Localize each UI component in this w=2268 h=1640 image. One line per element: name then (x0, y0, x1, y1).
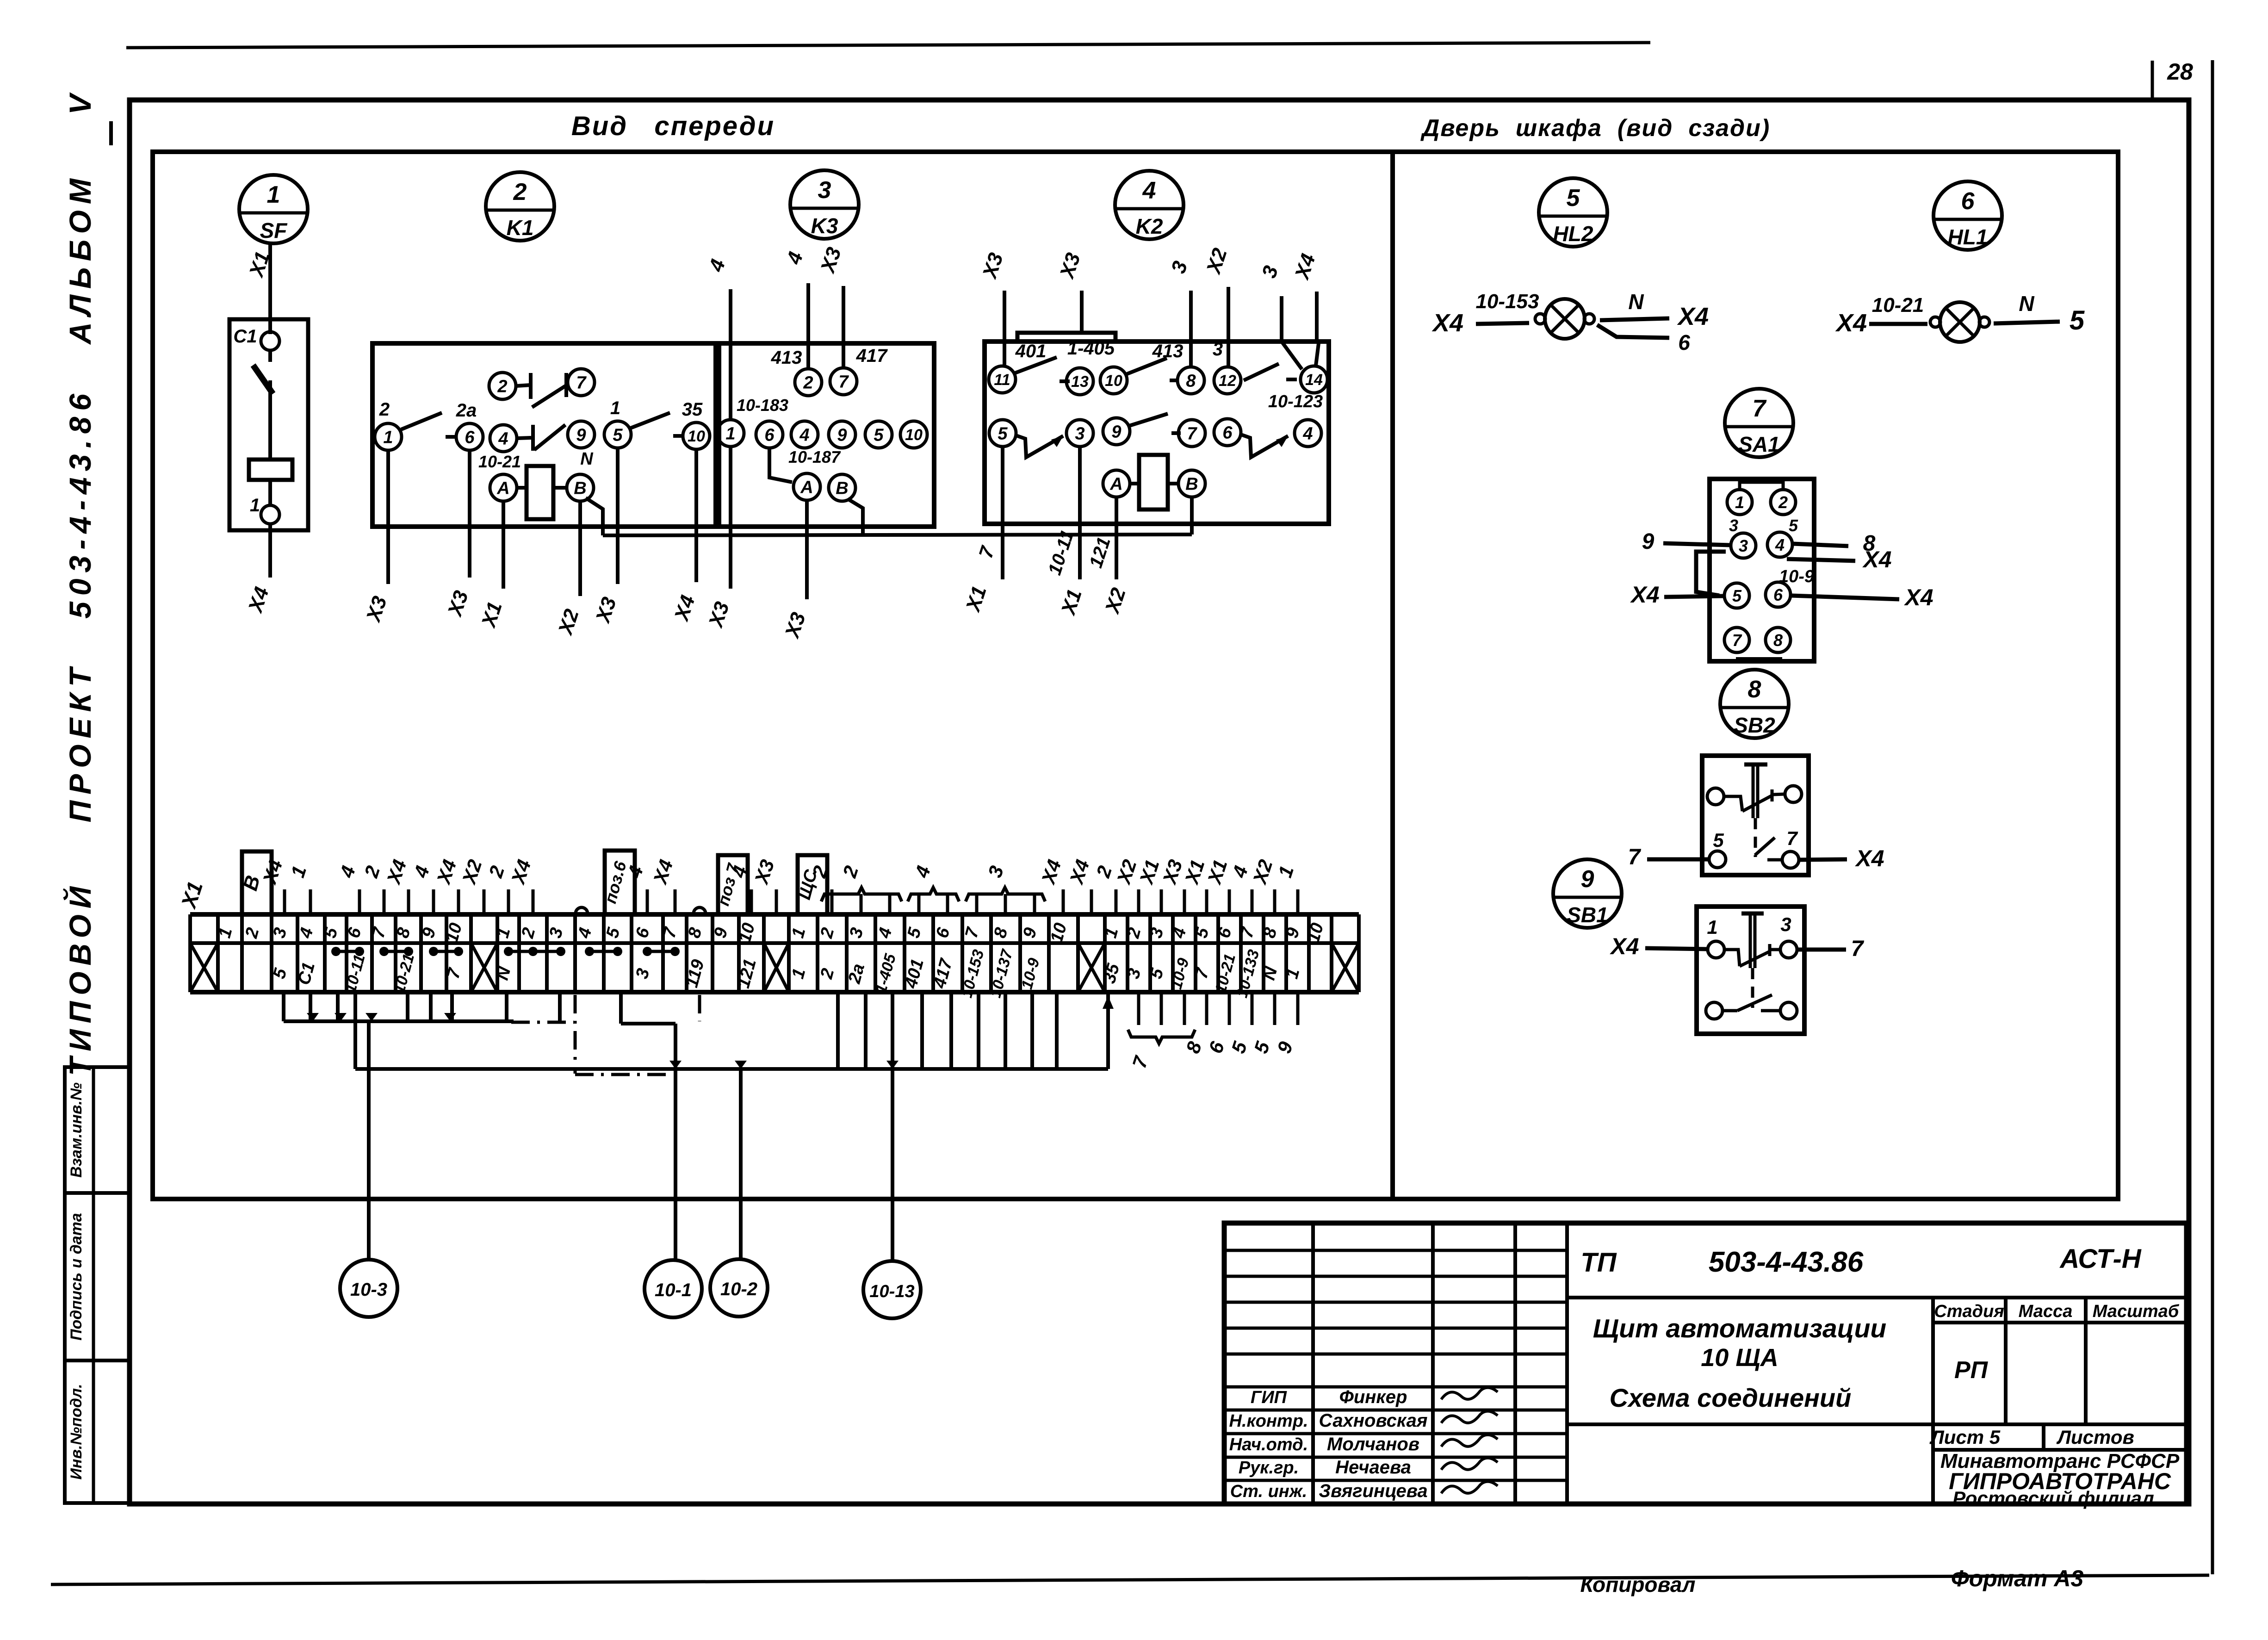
svg-text:6: 6 (1961, 188, 1975, 215)
svg-text:4: 4 (1302, 424, 1313, 444)
stub wire group2 terminal 3 (558, 992, 562, 1021)
pin K2.4 (1295, 420, 1321, 447)
pin K1.10 (683, 422, 710, 449)
wire K1.5 to X3 (616, 448, 620, 584)
svg-text:HL1: HL1 (1948, 225, 1988, 249)
svg-text:Дверь шкафа (вид сзади): Дверь шкафа (вид сзади) (1420, 115, 1771, 142)
incoming wire X4 to terminal (1062, 889, 1065, 914)
incoming wire 4 to terminal (432, 889, 435, 914)
contact K1 2-7 (516, 385, 531, 386)
contact SB1 bottom (1723, 1009, 1737, 1013)
pin SA1.7 (1724, 627, 1749, 652)
wire group3 terminal 4 to circle 10-13 (891, 992, 894, 1262)
incoming wire 4 to terminal (750, 889, 753, 914)
contact K1 1-6 (401, 413, 442, 429)
svg-text:K3: K3 (811, 214, 838, 238)
svg-text:Схема соединений: Схема соединений (1610, 1383, 1852, 1412)
junction on bus L1 (335, 1013, 347, 1021)
switch SA1 body (1710, 479, 1814, 661)
pin SA1.5 (1724, 583, 1749, 608)
crossed spare cell (764, 943, 789, 992)
outer drawing frame (130, 100, 2189, 1504)
svg-text:10: 10 (905, 426, 923, 444)
pin K2.14 (1301, 366, 1327, 393)
svg-text:13: 13 (1071, 373, 1089, 391)
wire 9 to SA1.3 (1663, 543, 1730, 545)
pin SB1.3 (1780, 941, 1797, 958)
title block frame (1224, 1223, 2187, 1504)
pin K1.A (490, 474, 517, 501)
svg-text:N: N (2019, 292, 2034, 316)
wire HL2 branch net 6 (1597, 325, 1669, 338)
junction on bus L1 (307, 1013, 319, 1021)
wire K1.B jog to N bus (586, 498, 603, 535)
incoming wire X3 to terminal (775, 889, 778, 914)
pin K3.1 (717, 420, 744, 447)
pin K2.3 (1066, 420, 1093, 447)
svg-text:10: 10 (1105, 372, 1122, 390)
svg-text:B: B (1185, 475, 1198, 494)
designator circle 5 HL2 (1539, 178, 1607, 247)
svg-text:7: 7 (838, 373, 849, 392)
wire bus L2 to circle 10-2 (739, 1069, 743, 1260)
wire K3.7 up to X3 (842, 286, 845, 368)
svg-text:7: 7 (1628, 845, 1642, 870)
pin K1.4 (490, 425, 517, 452)
svg-text:1: 1 (725, 424, 735, 444)
wire SF to X4 (268, 524, 272, 578)
terminal 1 of SF (268, 480, 272, 505)
svg-text:6: 6 (1773, 585, 1783, 604)
outgoing wire 8 (1205, 992, 1208, 1025)
incoming wire 4 to terminal (358, 889, 361, 914)
wire K1.A to X1 (502, 501, 505, 589)
svg-text:413: 413 (1152, 341, 1184, 361)
svg-text:Лист 5: Лист 5 (1929, 1426, 2001, 1448)
jumper link on terminals (589, 950, 618, 953)
contact K2 6-4 (1241, 435, 1288, 457)
pin K3.7 (830, 368, 857, 395)
wire HL1 to 5, net N (1994, 322, 2060, 323)
contact K2 11-13 (1015, 357, 1057, 373)
jumper link on terminals (336, 950, 359, 953)
pin K3.6 (756, 421, 783, 448)
stub wire group3 to bus L2 (920, 992, 924, 1069)
pin SA1.6 (1766, 582, 1791, 607)
svg-text:7: 7 (1732, 631, 1742, 650)
wire K3.6 to K3.A (769, 448, 792, 482)
pin SB1 bottom-left (1706, 1002, 1723, 1019)
outgoing wire 5 (1251, 992, 1254, 1025)
svg-text:2: 2 (513, 179, 527, 205)
incoming wire X4 to terminal (457, 889, 460, 914)
svg-text:Масштаб: Масштаб (2093, 1302, 2180, 1321)
svg-text:Н.контр.: Н.контр. (1229, 1411, 1308, 1431)
contact SB2 top (1724, 796, 1742, 811)
svg-text:503-4-43.86: 503-4-43.86 (1709, 1246, 1864, 1278)
wire SB2.7 to X4 (1799, 859, 1847, 860)
stub wire group3 to bus L2 (864, 992, 868, 1069)
group brace net 3 (966, 888, 1045, 901)
pin K1.5 (604, 421, 631, 448)
svg-text:SF: SF (260, 218, 288, 242)
door panel border (1393, 152, 2118, 1199)
pin SA1.2 (1771, 490, 1796, 515)
wire to circle 10-1 (674, 1024, 677, 1261)
svg-text:9: 9 (1581, 866, 1594, 893)
svg-text:8: 8 (1748, 676, 1761, 703)
crossed spare cell (1078, 943, 1105, 992)
contact SB2 bottom (1755, 838, 1775, 855)
incoming wire 1 to terminal (1296, 889, 1300, 914)
svg-text:1: 1 (610, 398, 620, 418)
pin SA1.3 (1731, 533, 1756, 558)
wire K2.12 up to X2 (1227, 287, 1230, 367)
contact K2 9-7 (1129, 414, 1168, 426)
incoming wire X2 to terminal (1137, 889, 1140, 914)
incoming wire X4 to terminal (674, 889, 677, 914)
svg-text:10-153: 10-153 (1475, 290, 1539, 313)
svg-text:7: 7 (1851, 937, 1865, 961)
incoming wire X2 to terminal (1273, 889, 1277, 914)
svg-text:3: 3 (1213, 339, 1223, 360)
pin SB2.7 (1782, 851, 1799, 868)
wire SB1.3 to 7 (1797, 948, 1846, 952)
svg-text:Нач.отд.: Нач.отд. (1229, 1435, 1308, 1454)
pin K2.9 (1103, 418, 1130, 445)
pin K2.5 (989, 420, 1016, 447)
contact SB1 top (1724, 950, 1740, 966)
lamp HL2 (1545, 299, 1585, 339)
svg-text:7: 7 (1187, 424, 1197, 444)
button SB1 body (1697, 907, 1804, 1034)
riser L2 left (353, 992, 357, 1069)
wire K3.B jog to N bus (848, 499, 863, 535)
pin K1.2 (489, 373, 516, 399)
svg-text:2: 2 (497, 377, 507, 397)
wire K1.10 to X4 (694, 449, 698, 582)
wire K3.A to X3 (805, 500, 809, 599)
incoming wire 1 to terminal (309, 889, 312, 914)
outgoing wire group4 (1160, 992, 1163, 1025)
svg-text:5: 5 (1789, 516, 1798, 535)
svg-text:7: 7 (1786, 827, 1798, 849)
stub wire to bus L1 (450, 992, 454, 1021)
pin K1.6 (456, 423, 483, 450)
collector bus L1 (284, 1019, 514, 1023)
svg-text:Ростовский филиал: Ростовский филиал (1952, 1487, 2154, 1509)
pin SA1.8 (1766, 627, 1791, 652)
svg-text:X4: X4 (1630, 582, 1659, 608)
incoming wire 2 to terminal (507, 889, 510, 914)
incoming wire X1 to terminal (1205, 889, 1208, 914)
link SA1 1-2 (1740, 482, 1783, 489)
svg-text:10 ЩА: 10 ЩА (1701, 1344, 1778, 1372)
pin K3.4 (791, 421, 818, 448)
svg-text:X4: X4 (1854, 845, 1884, 871)
front view panel border (153, 152, 1393, 1199)
svg-text:7: 7 (576, 373, 587, 393)
svg-text:B: B (836, 479, 848, 498)
wire K2.13 up to X3 (1080, 291, 1084, 333)
svg-text:5: 5 (2070, 305, 2085, 335)
outgoing wire group4 (1137, 992, 1140, 1025)
contact K1 5-10 (631, 413, 670, 428)
incoming wire X2 to terminal (483, 889, 486, 914)
wire X4 to HL1, net 10-21 (1869, 322, 1927, 326)
svg-text:N: N (1628, 290, 1644, 314)
svg-text:6: 6 (465, 428, 475, 447)
shield hook at terminal 4 (576, 907, 588, 913)
svg-text:2: 2 (803, 373, 813, 393)
page number 28 (2151, 61, 2154, 99)
svg-text:SB2: SB2 (1734, 713, 1775, 737)
group brace net 4 (908, 888, 959, 901)
svg-text:417: 417 (856, 346, 888, 366)
wire bus to circle 10-3 (367, 1021, 371, 1260)
pin K3.2 (795, 369, 822, 396)
marker box поз 7 (718, 855, 748, 914)
jumper link on terminals (384, 950, 409, 953)
cover bump on K2 top (1017, 333, 1115, 342)
button SB2 body (1702, 756, 1809, 875)
svg-text:413: 413 (771, 348, 802, 368)
svg-text:5: 5 (874, 426, 884, 445)
wire K2.8 up, net 3 (1189, 291, 1193, 367)
svg-text:X4: X4 (1862, 547, 1891, 572)
group brace net 7 below (1128, 1030, 1195, 1044)
plunger SB2 (1744, 763, 1767, 767)
pin K2.10 (1100, 367, 1127, 394)
contact K2 10-8 (1127, 358, 1167, 374)
designator circle 7 SA1 (1725, 389, 1793, 457)
pin K2.13 (1066, 368, 1093, 395)
incoming wire 4 to terminal (1251, 889, 1254, 914)
stub wire to bus L1 (505, 992, 508, 1021)
svg-text:ТИПОВОЙ ПРОЕКТ 503-4-43.8: ТИПОВОЙ ПРОЕКТ 503-4-43.86 АЛЬБОМ V (62, 88, 97, 1076)
outgoing wire 5 (1273, 992, 1277, 1025)
svg-text:10-2: 10-2 (720, 1279, 757, 1299)
svg-text:6: 6 (764, 426, 775, 445)
sheet top edge line (126, 43, 1650, 48)
breaker SF coil (249, 460, 292, 480)
incoming wire X4 to terminal (1090, 889, 1093, 914)
sheet bottom edge line (51, 1575, 2209, 1584)
incoming wire 2 to terminal (830, 889, 834, 914)
relay K3 body (719, 343, 934, 527)
cable circle 10-1 (644, 1260, 702, 1317)
designator circle 8 SB2 (1720, 670, 1789, 738)
junction on bus L2 (669, 1061, 682, 1069)
svg-text:X4: X4 (1609, 933, 1639, 959)
pin K1.B (567, 474, 594, 501)
pin SB2.5 (1709, 851, 1726, 868)
svg-text:1: 1 (1735, 493, 1744, 512)
svg-text:9: 9 (1111, 422, 1121, 442)
pin K1.7 (568, 369, 595, 396)
svg-text:Стадия: Стадия (1934, 1302, 2004, 1321)
outgoing wire 6 (1228, 992, 1231, 1025)
svg-text:SB1: SB1 (1567, 903, 1608, 927)
incoming wire 4 to terminal (646, 889, 649, 914)
svg-text:1-405: 1-405 (1067, 338, 1115, 359)
designator circle 6 HL1 (1933, 181, 2002, 250)
svg-text:3: 3 (1729, 516, 1738, 535)
crossed spare cell (471, 943, 497, 992)
pin SA1.4 (1767, 532, 1792, 557)
wire K1.B to X2 (578, 501, 582, 596)
jumper link on terminals (508, 950, 561, 953)
svg-text:N: N (580, 449, 594, 469)
svg-text:Щит автоматизации: Щит автоматизации (1593, 1314, 1886, 1343)
contact K2 12-14 (1244, 364, 1279, 380)
svg-text:4: 4 (1775, 535, 1785, 554)
wire up net 3 to K2.14 (1280, 296, 1283, 342)
pin K3.B (829, 474, 855, 501)
svg-text:C1: C1 (233, 326, 257, 347)
svg-text:Листов: Листов (2056, 1426, 2134, 1448)
wire K3.1 up, net 4 (729, 289, 732, 420)
svg-text:Ст. инж.: Ст. инж. (1230, 1482, 1308, 1501)
svg-text:АСТ-Н: АСТ-Н (2059, 1244, 2141, 1274)
svg-text:12: 12 (1219, 372, 1236, 390)
svg-text:28: 28 (2167, 59, 2193, 85)
pin K2.11 (989, 366, 1016, 393)
wire K2.11 up to X3 (1003, 291, 1006, 367)
cable circle 10-3 (340, 1260, 397, 1317)
svg-text:6: 6 (1222, 423, 1233, 443)
svg-text:X4: X4 (1903, 584, 1933, 610)
group brace net 2 (821, 888, 902, 901)
title block verticals (1311, 1223, 1315, 1504)
shield hook at terminal 8 (694, 907, 706, 913)
stub wire to bus L1 (282, 992, 285, 1021)
incoming wire 2 to terminal (383, 889, 386, 914)
wire K2.5 to X1, net 7 (1001, 447, 1004, 579)
incoming wire X4 to terminal (407, 889, 410, 914)
column box Подпись и дата (65, 1193, 130, 1360)
svg-text:10-21: 10-21 (1872, 294, 1924, 317)
wire K3.2 up, net 4 (806, 283, 810, 369)
svg-text:5: 5 (613, 426, 623, 445)
contact K2 5-3 (1016, 435, 1063, 457)
svg-text:4: 4 (498, 429, 508, 449)
pin SB1 bottom-right (1780, 1002, 1797, 1019)
svg-text:1: 1 (1707, 916, 1717, 938)
junction on bus L2 (886, 1061, 899, 1069)
svg-text:Сахновская: Сахновская (1319, 1410, 1428, 1431)
svg-text:ГИП: ГИП (1251, 1388, 1287, 1407)
svg-text:K1: K1 (507, 216, 534, 240)
cable circle 10-13 (863, 1261, 921, 1318)
coil K2 (1130, 482, 1139, 485)
designator circle 1 SF (239, 175, 308, 243)
wire HL2 to X4, net N (1600, 318, 1669, 320)
wire X4 to HL2, net 10-153 (1476, 323, 1529, 324)
terminal C1 of SF (261, 332, 279, 350)
svg-text:2a: 2a (456, 400, 477, 421)
svg-text:Рук.гр.: Рук.гр. (1239, 1458, 1299, 1478)
pin K2.12 (1214, 367, 1241, 394)
svg-text:1: 1 (250, 495, 260, 516)
svg-text:10-183: 10-183 (737, 396, 788, 415)
stub wire group3 to bus L2 (836, 992, 840, 1069)
svg-text:14: 14 (1305, 371, 1323, 389)
wire K2.3 to X1, net 10-11 (1078, 447, 1082, 579)
svg-text:Копировал: Копировал (1580, 1572, 1696, 1597)
plunger SB1 (1741, 912, 1764, 916)
svg-text:10-21: 10-21 (478, 452, 521, 471)
svg-text:2: 2 (379, 399, 390, 420)
crossed spare cell (190, 943, 218, 992)
wire SA1.4 to 8 (1793, 544, 1848, 546)
wire SA1.4 to X4 (1787, 559, 1855, 561)
jumper link on terminals (647, 950, 675, 953)
svg-text:Молчанов: Молчанов (1327, 1434, 1419, 1454)
breaker SF switch blade (268, 350, 272, 362)
svg-text:Инв.№подл.: Инв.№подл. (68, 1384, 85, 1479)
designator circle 4 K2 (1115, 171, 1184, 239)
stub wire to bus L1 (429, 992, 433, 1021)
svg-text:РП: РП (1954, 1357, 1989, 1384)
svg-text:SA1: SA1 (1738, 432, 1779, 456)
pin K3.10 (900, 421, 927, 448)
svg-text:4: 4 (1142, 177, 1156, 204)
designator circle 9 SB1 (1553, 859, 1622, 928)
wire K1.1 to X3 (386, 450, 390, 584)
svg-text:10-13: 10-13 (869, 1282, 914, 1301)
pin SA1.1 (1727, 490, 1752, 515)
svg-text:Нечаева: Нечаева (1335, 1457, 1411, 1478)
svg-text:10-3: 10-3 (350, 1280, 387, 1300)
column box Инв.№подл. (65, 1360, 130, 1503)
crossed spare cell (1332, 943, 1359, 992)
terminal strip X1 body (190, 912, 1359, 917)
lamp HL1 (1940, 302, 1980, 342)
pin SB2 top-left (1707, 788, 1724, 805)
wire K2.B to N bus (1190, 497, 1194, 534)
outgoing wire group4 (1183, 992, 1186, 1025)
pin K3.9 (829, 421, 855, 448)
marker box ЩС (798, 855, 827, 914)
svg-text:9: 9 (1642, 529, 1655, 554)
pin K2.7 (1178, 420, 1205, 447)
svg-text:3: 3 (818, 177, 831, 204)
stub wire to bus L1 (336, 992, 340, 1021)
n-link to circle 10-1 (619, 992, 623, 1024)
pin K2.8 (1177, 367, 1204, 394)
pin K1.1 (375, 423, 402, 450)
svg-text:9: 9 (837, 426, 847, 445)
designator circle 2 K1 (486, 172, 554, 241)
pin K2.6 (1214, 419, 1241, 446)
svg-text:1: 1 (383, 428, 393, 447)
riser L2 right with arrow (1106, 992, 1110, 1069)
stub wire group3 to bus L2 (949, 992, 953, 1069)
svg-text:4: 4 (799, 426, 809, 445)
svg-text:10-123: 10-123 (1268, 392, 1323, 411)
svg-text:3: 3 (1780, 913, 1791, 935)
svg-text:ТП: ТП (1580, 1248, 1617, 1278)
junction on bus L1 (366, 1013, 378, 1021)
stub wire group3 to bus L2 (977, 992, 980, 1069)
wire X4 to K2.14 (1315, 292, 1319, 342)
marker box поз.6 (605, 851, 635, 914)
N bus between K1.B K3.B K2.B (603, 534, 1192, 535)
wire SF to X1 (268, 243, 272, 334)
title block horizontals (1567, 1296, 2187, 1299)
svg-text:3: 3 (1739, 536, 1748, 555)
